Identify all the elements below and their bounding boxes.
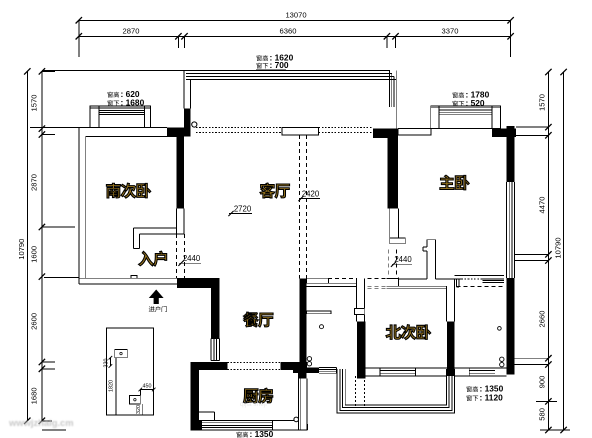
svg-text:1570: 1570 [30,95,39,112]
window in north bedroom south wall [380,367,415,369]
east outer wall window band 主卧 [506,182,508,278]
wall black: top wall east portion [167,127,184,136]
room label 主卧 [440,175,454,189]
right chain extension stubs [516,126,548,128]
svg-text:2870: 2870 [123,27,140,36]
svg-text:2870: 2870 [30,174,39,191]
dimension line total 10790 (left outer) [26,71,28,420]
svg-text:580: 580 [538,408,547,421]
label 窗下:520 [452,101,457,107]
utility room south wall + window 窗高1350 [455,367,470,369]
svg-text:1820: 1820 [109,380,115,392]
svg-text:1600: 1600 [30,246,39,263]
detail figure rectangle [107,328,154,415]
bathroom vanity stub [306,311,331,314]
wall black: east outer wall upper [507,126,515,182]
svg-text:: 700: : 700 [270,60,289,70]
kitchen east wall [298,365,306,379]
detail small box 1 [115,350,128,358]
svg-text:2600: 2600 [30,313,39,330]
svg-text:320: 320 [136,405,142,414]
detail vertical line 1820 [115,358,117,415]
hall wall vertical stub [456,279,458,287]
svg-text:2660: 2660 [538,311,547,328]
wall black: bathroom east wall lower / north bedroom west [357,321,365,375]
label 窗高:1780 [452,92,457,98]
master west wall below black (double line + jamb foot) [389,209,391,239]
svg-text:10790: 10790 [17,239,26,260]
balcony window walls (4 nested U) [337,369,454,413]
beam/lintel rectangle above living room [282,128,319,136]
wall black: kitchen west wall [191,362,199,431]
wall black: stub into balcony [357,376,365,379]
hall dashed segments (door to north bedroom) [367,278,386,280]
south bedroom bay window 窗高620 [90,106,150,127]
dimension line top row 2: 2870 / 6360 / 3370 [79,35,511,37]
north bedroom south wall band [366,367,380,369]
master bedroom bay window 窗高1780 [431,106,501,129]
wall black: east outer wall lower [507,278,515,374]
bathroom east wall upper (double) with jamb foot [356,279,358,309]
top chain extension lines [78,20,80,57]
svg-text:6360: 6360 [280,27,297,36]
entry door arrow 进户门 [149,290,164,305]
living room bay window right column (vertical glazing) [389,70,391,107]
dimension line total 10790 (right outer) [563,72,565,430]
label 进户门 [149,306,155,312]
bathroom top wall [306,282,357,284]
room label 客厅 [260,183,275,198]
utility room circles (right) [498,327,502,331]
svg-text:: 520: : 520 [466,98,485,108]
svg-text:2720: 2720 [234,205,252,214]
bathroom pipes circles [307,357,311,361]
living room center dashed lines [298,135,300,279]
svg-text:330: 330 [104,359,110,368]
wall black: bathroom west wall [300,279,307,373]
label 窗高:1620 [256,55,261,61]
node circle at living bay left pier [192,122,197,127]
room label 北次卧 [386,325,401,339]
living room bay window top (4 glazing lines) [42,69,390,71]
hall south wall upper line [398,278,427,280]
wall black: vertical wall below entry [211,288,219,338]
south bedroom top wall [79,126,90,128]
svg-text:2440: 2440 [183,254,201,263]
entry door opening dashed 2440 [175,234,177,278]
svg-text:qijia sheji: qijia sheji [240,401,267,408]
label 窗高:1350 kitchen [236,432,241,438]
label 窗下:1120 right [466,395,471,401]
svg-text:10790: 10790 [554,237,563,258]
label 窗高:620 [107,92,112,98]
north bedroom top wall [387,285,447,287]
left chain extension stubs [42,70,55,72]
wall black: south bedroom east wall [176,128,184,209]
svg-text:: 1680: : 1680 [121,98,145,108]
svg-text:2440: 2440 [394,255,412,264]
room label 南次卧 [106,183,120,198]
wall black: living-room bay left pier [184,109,191,137]
west outer wall (double line) [78,127,80,284]
svg-text:2420: 2420 [302,190,320,199]
svg-text:1570: 1570 [538,94,547,111]
label 窗高:1350 right [466,386,471,392]
entry bottom wall (double line) [79,277,177,279]
window in west wall of dining 窗 [210,339,212,361]
balcony dashed wall projection [354,376,356,406]
detail small box 2 [130,395,141,404]
room label 厨房 [243,389,258,403]
svg-text:wwwjzhaig.cm: wwwjzhaig.cm [8,417,74,428]
south bedroom east wall lower white part [175,209,177,234]
kitchen top wall black + dotted opening [199,362,228,370]
window south of bathroom [319,366,337,368]
kitchen bottom wall + window 窗高1350 [199,419,299,421]
svg-text:1680: 1680 [30,387,39,404]
living room top beam dotted lines [196,127,282,129]
svg-text:450: 450 [143,384,152,390]
door-stop notch on entry wall [131,275,137,278]
master bedroom top wall band [398,129,431,135]
wall black: master bay right corner [492,129,516,138]
dimension line right inner: 1570/4470/2660/900/580 [547,72,549,430]
master door right jamb stub wall [426,240,428,247]
svg-text:13070: 13070 [285,11,306,20]
svg-text:: 1350: : 1350 [250,429,274,438]
dimension line left inner: 1570/2870/1600/2600/1680 [41,71,43,420]
wall black: entry bottom-right corner L [177,278,220,288]
room label 餐厅 [243,312,258,327]
wall black: north bedroom east wall [447,321,455,375]
detail dim 450 [140,389,153,391]
kitchen interior step (counter) [199,411,215,413]
label 窗下:1680 [107,100,112,106]
kitchen drain circle [294,417,299,422]
room label 入户 [139,251,154,266]
south bedroom door jamb L-wall [133,227,176,229]
living room bay window left column [183,70,185,108]
svg-text:3370: 3370 [442,27,459,36]
wall black: living room top right corner [373,129,398,139]
bathroom floor drain circle [320,325,324,329]
wall black: master bedroom west wall [388,138,399,208]
svg-text:4470: 4470 [538,197,547,214]
svg-text:900: 900 [538,376,547,389]
label 窗下:700 [256,63,261,69]
bathroom south wall black [293,367,319,373]
detail dim 320 [141,404,143,415]
master door opening dashed 2440 [388,250,390,278]
svg-text:: 1120: : 1120 [480,393,504,403]
dimension line total 13070 (top row 1) [79,19,511,21]
